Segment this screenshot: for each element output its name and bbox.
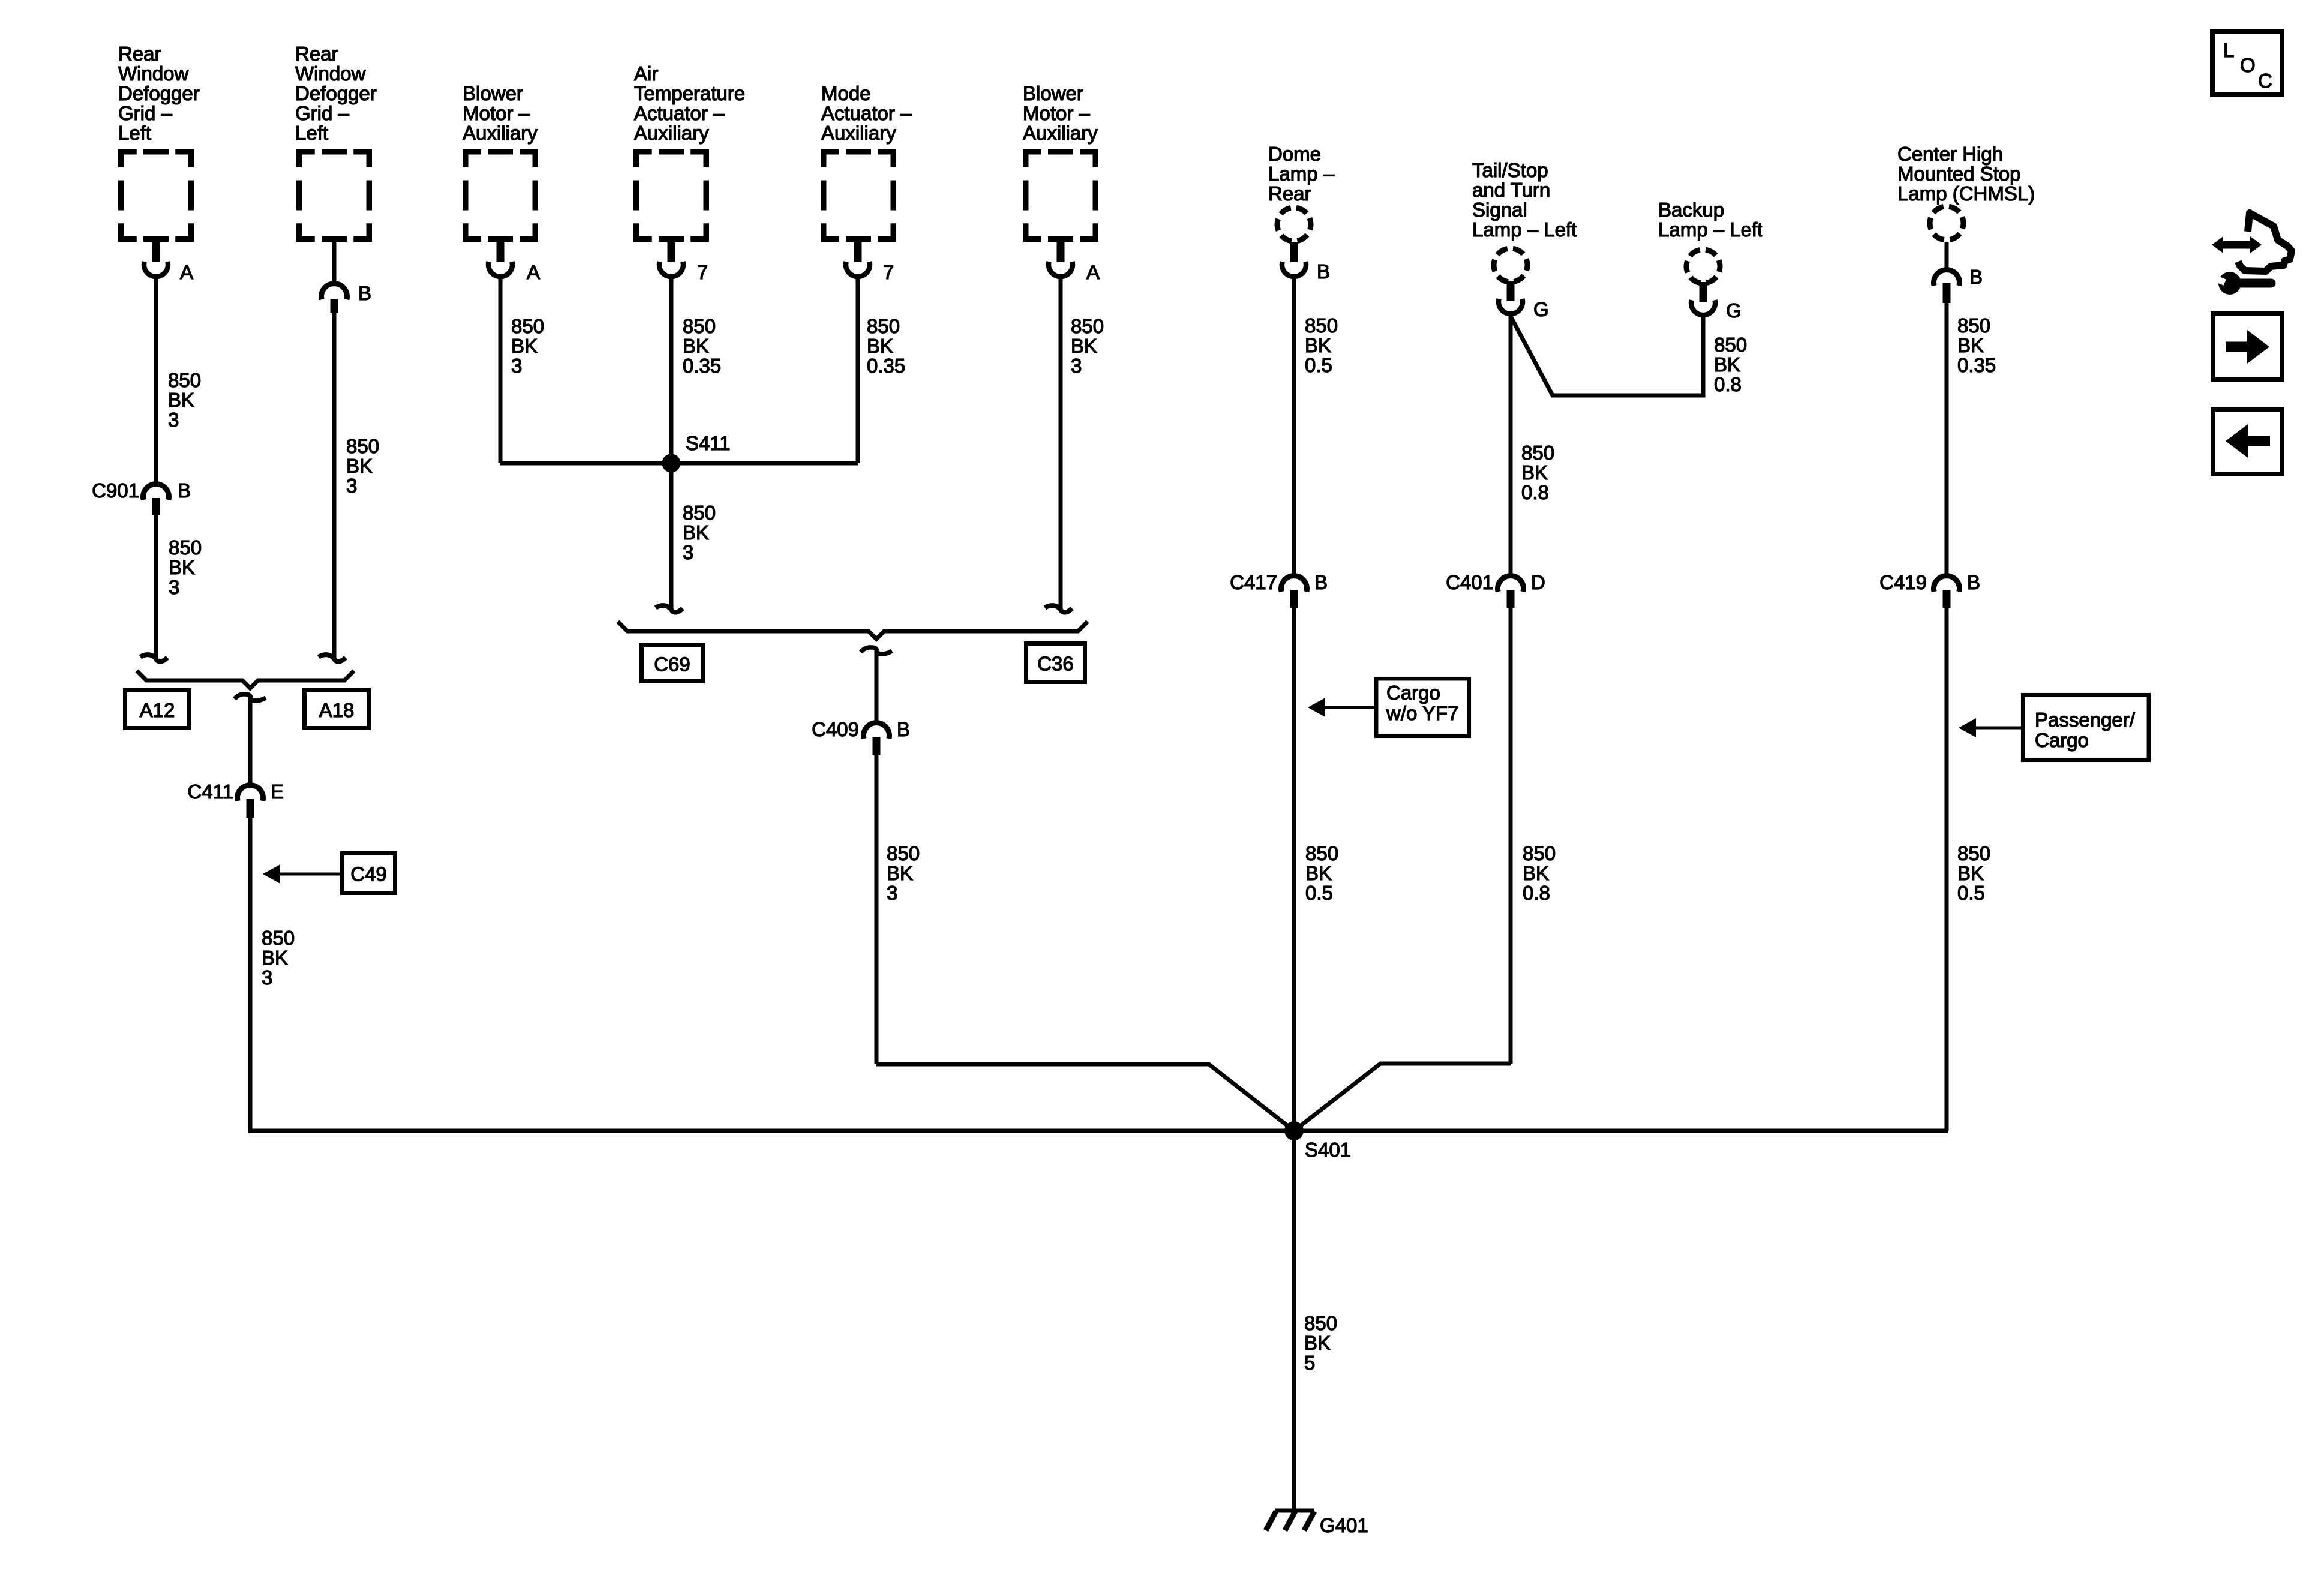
- svg-text:and Turn: and Turn: [1472, 179, 1550, 201]
- CHMSL (dashed circle): [1930, 206, 1963, 240]
- callout box A12: [125, 691, 190, 728]
- svg-text:Cargo: Cargo: [2035, 729, 2089, 751]
- callout box A18: [305, 691, 369, 728]
- svg-text:850: 850: [867, 315, 900, 337]
- svg-text:C409: C409: [812, 718, 859, 740]
- mode actuator - auxiliary (dashed box): [824, 152, 894, 239]
- connector pin 7 of mode actuator: [854, 242, 862, 262]
- svg-text:850: 850: [346, 435, 379, 457]
- svg-text:Left: Left: [118, 122, 151, 144]
- svg-text:C901: C901: [92, 479, 139, 502]
- svg-text:Auxiliary: Auxiliary: [463, 122, 538, 144]
- dome lamp - rear (dashed circle): [1277, 208, 1311, 241]
- wire from brace to C409: [875, 650, 879, 721]
- svg-text:BK: BK: [683, 335, 709, 357]
- svg-text:Blower: Blower: [1023, 82, 1083, 104]
- svg-text:Auxiliary: Auxiliary: [821, 122, 896, 144]
- svg-text:B: B: [1967, 571, 1980, 593]
- continuation hook below brace: [235, 694, 251, 699]
- svg-text:Mode: Mode: [821, 82, 871, 104]
- svg-text:Signal: Signal: [1472, 199, 1527, 221]
- svg-text:Backup: Backup: [1658, 199, 1724, 221]
- blower motor - auxiliary #2 (dashed box): [1026, 152, 1096, 239]
- svg-text:BK: BK: [262, 947, 288, 969]
- svg-text:850: 850: [1523, 842, 1556, 864]
- wire 850 BK 3 below C411: [248, 818, 253, 1131]
- LOC legend box: [2212, 31, 2282, 95]
- svg-text:E: E: [271, 781, 284, 803]
- svg-text:7: 7: [883, 261, 894, 283]
- connector pin 7 of air temperature actuator: [668, 242, 675, 262]
- svg-text:Defogger: Defogger: [118, 82, 200, 104]
- wire 850 BK 0.8 from backup lamp G joining tail/stop wire: [1511, 315, 1703, 395]
- svg-text:G: G: [1726, 299, 1742, 322]
- svg-text:850: 850: [1957, 314, 1990, 337]
- svg-text:Rear: Rear: [1268, 182, 1311, 205]
- svg-text:850: 850: [683, 502, 716, 524]
- svg-text:BK: BK: [1305, 862, 1332, 884]
- svg-text:850: 850: [169, 536, 202, 559]
- svg-text:0.5: 0.5: [1305, 354, 1332, 376]
- wire 850 BK 3 from defogger grid B: [332, 313, 337, 636]
- svg-text:S401: S401: [1305, 1139, 1351, 1161]
- svg-text:850: 850: [1305, 842, 1338, 864]
- svg-text:BK: BK: [1957, 334, 1984, 356]
- svg-text:C401: C401: [1446, 571, 1493, 593]
- svg-text:Auxiliary: Auxiliary: [1023, 122, 1098, 144]
- svg-text:Air: Air: [634, 62, 658, 85]
- svg-text:Rear: Rear: [295, 43, 338, 65]
- svg-text:0.35: 0.35: [867, 355, 905, 377]
- splice S401: [1284, 1121, 1304, 1140]
- svg-text:850: 850: [1521, 442, 1554, 464]
- svg-text:850: 850: [1304, 1312, 1337, 1334]
- svg-text:3: 3: [683, 541, 693, 563]
- splice S411: [662, 454, 681, 473]
- callout box C69: [642, 646, 703, 682]
- svg-text:Rear: Rear: [118, 43, 161, 65]
- callout box C49 with arrow: [343, 854, 395, 893]
- svg-text:D: D: [1531, 571, 1545, 593]
- svg-text:C49: C49: [350, 863, 387, 885]
- wire 850 BK 0.35 from air temp actuator: [669, 277, 674, 597]
- svg-text:3: 3: [346, 475, 357, 497]
- svg-text:BK: BK: [168, 389, 194, 411]
- svg-text:C419: C419: [1879, 571, 1927, 593]
- svg-text:3: 3: [511, 355, 522, 377]
- wire 850 BK 0.35 from mode actuator: [856, 277, 860, 463]
- svg-text:850: 850: [1957, 842, 1990, 864]
- svg-text:Grid –: Grid –: [295, 102, 350, 124]
- wire 850 BK 3 below C409: [875, 755, 879, 1064]
- svg-text:850: 850: [683, 315, 716, 337]
- connector C417 pin B: [1281, 576, 1307, 592]
- svg-text:B: B: [1969, 266, 1983, 288]
- svg-text:3: 3: [262, 966, 272, 989]
- connector pin A of blower motor: [497, 242, 505, 262]
- wire 850 BK 0.8 from tail/stop G: [1509, 314, 1513, 574]
- svg-text:C69: C69: [654, 653, 690, 676]
- rear window defogger grid - left (dashed box): [121, 152, 191, 239]
- wire 850 BK 5 from S401 to G401: [1292, 1131, 1296, 1509]
- svg-text:BK: BK: [511, 335, 538, 357]
- connector pin B of dome lamp: [1290, 242, 1298, 262]
- right-arrow nav box: [2213, 314, 2282, 380]
- blower motor - auxiliary (dashed box): [466, 152, 536, 239]
- svg-text:A12: A12: [140, 699, 175, 721]
- rear window defogger grid - left #2 (dashed box): [299, 152, 370, 239]
- svg-text:BK: BK: [683, 521, 709, 544]
- svg-text:850: 850: [1071, 315, 1104, 337]
- left-arrow nav box: [2213, 409, 2282, 474]
- svg-text:0.8: 0.8: [1523, 882, 1550, 904]
- svg-text:0.8: 0.8: [1521, 481, 1549, 503]
- connector pin A of defogger grid: [152, 242, 160, 262]
- svg-text:C36: C36: [1037, 653, 1074, 675]
- svg-text:w/o YF7: w/o YF7: [1386, 702, 1458, 724]
- svg-text:Actuator –: Actuator –: [821, 102, 912, 124]
- connector pin B of CHMSL: [1945, 242, 1949, 271]
- ground G401: [1275, 1509, 1314, 1513]
- svg-text:850: 850: [511, 315, 544, 337]
- svg-text:Lamp (CHMSL): Lamp (CHMSL): [1897, 182, 2035, 205]
- svg-text:C417: C417: [1230, 571, 1277, 593]
- wire 850 BK 0.5 below C417: [1292, 608, 1296, 1131]
- connector C901 pin B: [143, 484, 169, 500]
- wire 850 BK 0.35 from CHMSL B: [1945, 303, 1949, 574]
- wire end hook into harness A12 bundle: [154, 633, 158, 658]
- main ground bus wire: [248, 1129, 1948, 1133]
- svg-text:Center High: Center High: [1897, 143, 2003, 165]
- svg-text:850: 850: [1714, 334, 1747, 356]
- connector C411 pin E: [238, 785, 263, 801]
- svg-text:Lamp – Left: Lamp – Left: [1472, 218, 1577, 241]
- backup lamp - left (dashed circle): [1686, 250, 1720, 283]
- svg-text:BK: BK: [1521, 461, 1548, 484]
- wire run from C401 into S401: [1294, 1064, 1511, 1131]
- continuation hook below brace: [861, 647, 877, 652]
- svg-text:3: 3: [169, 576, 179, 598]
- svg-text:BK: BK: [887, 862, 913, 884]
- svg-text:BK: BK: [169, 556, 195, 578]
- svg-text:A: A: [527, 261, 540, 283]
- svg-text:Grid –: Grid –: [118, 102, 173, 124]
- svg-text:BK: BK: [1714, 353, 1740, 376]
- svg-text:BK: BK: [1071, 335, 1097, 357]
- wire from brace to C411: [248, 697, 253, 784]
- svg-text:Auxiliary: Auxiliary: [634, 122, 709, 144]
- callout box Cargo w/o YF7 with arrow: [1376, 679, 1469, 736]
- svg-text:Tail/Stop: Tail/Stop: [1472, 159, 1548, 181]
- svg-text:B: B: [178, 479, 191, 502]
- svg-text:850: 850: [262, 927, 295, 949]
- wire run from C409 into S401: [876, 1064, 1294, 1131]
- connector pin B of defogger grid #2: [332, 242, 337, 284]
- svg-text:Lamp – Left: Lamp – Left: [1658, 218, 1762, 241]
- svg-text:850: 850: [1305, 314, 1338, 337]
- wire 850 BK 3 from blower motor #2: [1059, 277, 1063, 597]
- wire 850 BK 3 from blower motor A: [499, 277, 503, 463]
- svg-text:0.8: 0.8: [1714, 373, 1742, 395]
- svg-text:Window: Window: [118, 62, 189, 85]
- harness brace over C69/C36: [618, 622, 1088, 639]
- S411 branch line: [500, 461, 858, 466]
- svg-text:Cargo: Cargo: [1386, 682, 1440, 704]
- wire end hook into harness C36 bundle: [1059, 597, 1063, 609]
- svg-text:B: B: [1314, 571, 1328, 593]
- svg-text:0.5: 0.5: [1305, 882, 1333, 904]
- svg-text:Defogger: Defogger: [295, 82, 377, 104]
- harness brace over A12/A18: [137, 671, 354, 688]
- svg-text:A18: A18: [319, 699, 355, 721]
- svg-text:Motor –: Motor –: [463, 102, 530, 124]
- wire 850 BK 0.8 below C401: [1509, 608, 1513, 1064]
- svg-text:BK: BK: [867, 335, 893, 357]
- svg-text:B: B: [897, 718, 910, 740]
- svg-text:850: 850: [168, 369, 201, 391]
- svg-text:3: 3: [168, 409, 179, 431]
- wire end hook into harness A18 bundle: [332, 633, 337, 658]
- svg-text:G: G: [1533, 298, 1549, 320]
- callout box Passenger/Cargo with arrow: [2023, 695, 2149, 760]
- connector C419 pin B: [1934, 576, 1960, 592]
- air temperature actuator - auxiliary (dashed box): [636, 152, 707, 239]
- svg-text:3: 3: [1071, 355, 1082, 377]
- svg-text:7: 7: [697, 261, 708, 283]
- svg-text:O: O: [2240, 54, 2256, 76]
- svg-text:A: A: [1086, 261, 1100, 283]
- wire 850 BK 3 from defogger grid A: [154, 277, 158, 482]
- svg-text:850: 850: [887, 842, 920, 864]
- vehicle body icon with double arrow and wrench: [2238, 213, 2292, 271]
- svg-text:5: 5: [1304, 1352, 1315, 1374]
- tail/stop and turn signal lamp - left (dashed circle): [1494, 248, 1527, 282]
- svg-text:Mounted Stop: Mounted Stop: [1897, 163, 2020, 185]
- svg-text:Blower: Blower: [463, 82, 523, 104]
- svg-text:Window: Window: [295, 62, 366, 85]
- connector pin A of blower motor #2: [1057, 242, 1065, 262]
- svg-text:G401: G401: [1320, 1514, 1368, 1536]
- svg-text:0.5: 0.5: [1957, 882, 1985, 904]
- svg-text:C411: C411: [188, 781, 233, 803]
- svg-text:Left: Left: [295, 122, 328, 144]
- svg-text:Actuator –: Actuator –: [634, 102, 725, 124]
- wire 850 BK 0.5 below C419: [1945, 608, 1949, 1131]
- svg-text:L: L: [2223, 39, 2234, 61]
- svg-text:BK: BK: [346, 455, 373, 477]
- svg-text:B: B: [358, 282, 371, 304]
- svg-text:BK: BK: [1523, 862, 1549, 884]
- svg-text:Temperature: Temperature: [634, 82, 745, 104]
- svg-text:BK: BK: [1305, 334, 1331, 356]
- wire 850 BK 3 below C901: [154, 515, 158, 636]
- svg-text:A: A: [180, 261, 193, 283]
- connector pin G of tail/stop lamp: [1507, 281, 1515, 301]
- wire end hook into harness C69 bundle: [669, 597, 674, 609]
- wire 850 BK 0.5 from dome lamp B: [1292, 277, 1296, 574]
- svg-text:Dome: Dome: [1268, 143, 1321, 165]
- svg-text:BK: BK: [1957, 862, 1984, 884]
- connector pin G of backup lamp: [1700, 282, 1707, 302]
- svg-text:C: C: [2258, 70, 2272, 92]
- svg-text:Lamp –: Lamp –: [1268, 163, 1335, 185]
- connector C409 pin B: [864, 723, 890, 739]
- svg-text:3: 3: [887, 882, 897, 904]
- svg-text:0.35: 0.35: [1957, 354, 1996, 376]
- svg-text:BK: BK: [1304, 1332, 1331, 1354]
- svg-text:Passenger/: Passenger/: [2035, 709, 2136, 731]
- svg-text:S411: S411: [686, 432, 731, 454]
- svg-text:0.35: 0.35: [683, 355, 721, 377]
- connector C401 pin D: [1498, 576, 1524, 592]
- svg-text:Motor –: Motor –: [1023, 102, 1091, 124]
- callout box C36: [1026, 644, 1085, 682]
- svg-text:B: B: [1317, 260, 1330, 283]
